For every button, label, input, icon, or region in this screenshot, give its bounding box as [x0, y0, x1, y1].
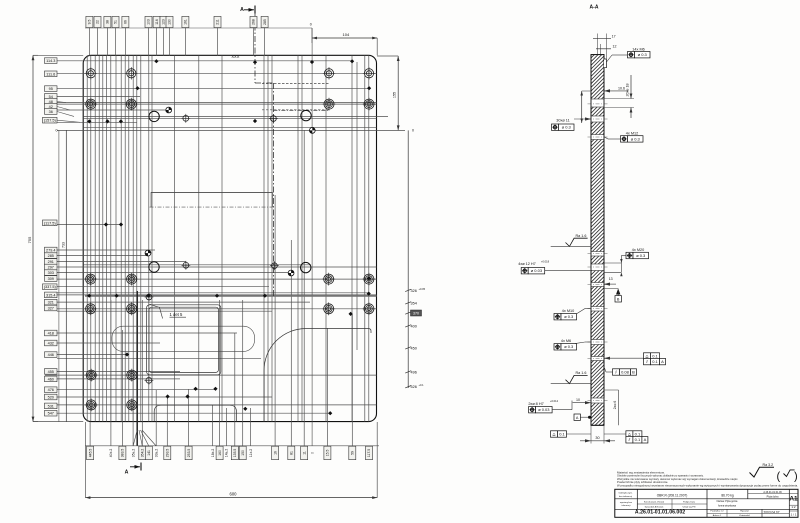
svg-text:Arkusz 1: Arkusz 1 [713, 514, 722, 517]
svg-text:285: 285 [48, 254, 54, 258]
wire: column x=298.0 [297, 55, 299, 421]
wire: dim row y=192.4 [151, 191, 273, 193]
svg-text:327: 327 [48, 307, 54, 311]
wire: bottom fan leaders [133, 430, 137, 446]
svg-text:354: 354 [411, 301, 417, 305]
svg-text:11: 11 [302, 451, 306, 455]
hole: threaded 2 [125, 98, 138, 111]
wire: column x=198.8 [198, 55, 200, 421]
svg-text:forma wtryskowa: forma wtryskowa [718, 505, 737, 508]
hole: threaded 4 [363, 98, 376, 111]
wire: column x=152.0 [151, 55, 153, 421]
svg-text:4x⌀ 12 H7: 4x⌀ 12 H7 [518, 262, 535, 266]
wire: hidden line [262, 83, 330, 85]
node marker at 330.2,413.2 [328, 411, 332, 415]
svg-text:0.08: 0.08 [621, 369, 630, 374]
label: left dim 285 [45, 253, 58, 259]
svg-text:0: 0 [412, 129, 414, 133]
svg-text:15.5: 15.5 [326, 450, 330, 457]
svg-text:520: 520 [48, 396, 54, 400]
label: left dim 432 [45, 340, 58, 346]
wire: column x=133.2 [132, 55, 134, 421]
hole: dowel 4 [301, 262, 311, 272]
svg-text:Plyta dolna: Plyta dolna [767, 495, 779, 498]
wire: top stem x=264.6 [264, 27, 266, 56]
callout: right bottom stack [626, 431, 642, 437]
node marker at 187.5,396.5 [185, 394, 189, 398]
label: left dim 531 [45, 403, 58, 409]
wire: dim row y=267.0 [57, 266, 377, 268]
svg-text:160: 160 [218, 450, 222, 456]
wire: column x=95.2 [94, 55, 96, 421]
svg-text:Ra 1.6: Ra 1.6 [576, 371, 587, 375]
svg-text:⫽: ⫽ [628, 437, 631, 442]
label: bottom dim 81 [288, 446, 295, 460]
svg-text:17: 17 [612, 34, 616, 38]
svg-text:A-A: A-A [590, 5, 599, 11]
dimension: 600 overall bottom [84, 422, 86, 498]
svg-text:117.5: 117.5 [367, 449, 371, 457]
svg-text:Uklad wg PN: Uklad wg PN [683, 507, 696, 509]
hole: dowel 2 [301, 110, 311, 120]
wire: bottom stems [89, 422, 91, 446]
node marker at 156.4,61.2 [154, 59, 158, 63]
svg-text:95: 95 [49, 87, 53, 91]
svg-text:547: 547 [48, 412, 54, 416]
svg-text:2003.04.07: 2003.04.07 [764, 510, 780, 514]
svg-text:141: 141 [147, 450, 151, 456]
wire: dim row y=104.1 [52, 103, 377, 105]
svg-text:35±.2: 35±.2 [131, 449, 135, 458]
label: left dim 327 [45, 305, 58, 311]
wire: dim row y=279.1 [45, 278, 377, 280]
hole: dowel 1 [149, 111, 159, 121]
svg-text:W przypadku niezgodnosci wymia: W przypadku niezgodnosci wymiarow nieozn… [617, 484, 798, 488]
label: top dim 285 [261, 16, 268, 27]
wire: hidden line [262, 109, 330, 111]
hole gap in section at y=103.9 [591, 99, 605, 107]
node marker at 106.0,224.5 [104, 222, 108, 226]
svg-text:Ra 3.2: Ra 3.2 [763, 463, 774, 467]
svg-text:22: 22 [96, 20, 100, 24]
svg-text:1 / 1: 1 / 1 [791, 513, 797, 517]
svg-text:30: 30 [595, 436, 599, 440]
wire: dim row y=397.0 [57, 396, 272, 398]
label: left dim (157.5) [43, 117, 58, 123]
label: left dim 111.6 [45, 71, 58, 77]
svg-text:(157.5): (157.5) [44, 119, 57, 123]
svg-text:2x⌀ 6: 2x⌀ 6 [613, 401, 617, 410]
svg-text:33±.2: 33±.2 [154, 449, 158, 458]
label: bottom dim 15.5 [324, 446, 331, 460]
svg-text:20x⌀ 18: 20x⌀ 18 [626, 84, 630, 97]
label: left dim 42 [45, 104, 58, 110]
wire: dim row y=250.0 [57, 249, 155, 251]
wire: dim row y=413.2 [57, 412, 330, 414]
hole: threaded 1 [84, 98, 97, 111]
svg-text:446: 446 [48, 353, 54, 357]
wire: top stem x=156.6 [156, 27, 158, 56]
pocket: det 5 rectangle (double wall) [147, 305, 221, 375]
svg-text:A: A [240, 7, 244, 13]
svg-text:Nazwa: Plyta gorna: Nazwa: Plyta gorna [717, 500, 738, 503]
wire: column x=99.2 [98, 55, 100, 421]
label: left dim 520 [45, 394, 58, 400]
wire: dim row y=375.1 [45, 374, 377, 376]
svg-text:86.70 kg: 86.70 kg [721, 494, 733, 498]
wire: column x=87.2 [86, 55, 88, 421]
svg-text:116: 116 [155, 19, 159, 25]
label: bottom dim 135.5 [231, 446, 238, 460]
svg-text:Rysowal: Rysowal [740, 511, 749, 513]
svg-text:10: 10 [576, 398, 580, 402]
node marker at 215.5,388.8 [213, 387, 217, 391]
node marker at 264.9,295.7 [263, 294, 267, 298]
wire: column x=106.4 [105, 55, 107, 421]
node marker at 350.6,313.9 [349, 312, 353, 316]
label: left dim 547 [45, 410, 58, 416]
hole: threaded 11 [322, 302, 335, 315]
svg-text:150: 150 [241, 450, 245, 456]
hole: counterbore top row 4 [363, 67, 375, 79]
wire: top stem x=217.5 [217, 27, 219, 56]
dimension: 155 top right vertical [397, 56, 399, 130]
svg-text:⌀ 0.3: ⌀ 0.3 [564, 344, 574, 349]
wire: dim row y=292.8 [57, 292, 370, 294]
svg-text:309: 309 [48, 277, 54, 281]
hole: counterbore top row 1 [85, 67, 97, 79]
hole: threaded 5 [84, 273, 97, 286]
dimension: 733 secondary left [65, 130, 67, 421]
label: top dim 66 [122, 16, 129, 27]
wire: column x=90.8 [90, 55, 92, 421]
svg-text:450: 450 [411, 346, 417, 350]
node marker at 89.2,295.7 [87, 294, 91, 298]
svg-text:12: 12 [613, 44, 617, 48]
hole gap in section at y=308.5 [591, 307, 605, 312]
svg-text:A: A [125, 470, 129, 476]
section plane A-A vertical leg [136, 291, 138, 446]
label: left dim 48 [45, 99, 58, 105]
label: bottom dim 35±.2 [131, 449, 135, 458]
callout: flatness/parallel right [644, 353, 660, 359]
svg-text:14±.2: 14±.2 [225, 449, 229, 458]
hole: small 3 [182, 261, 191, 270]
node marker at 255.0,62.2 [253, 60, 257, 64]
svg-text:155: 155 [393, 92, 397, 98]
svg-text:⌀ 0.03: ⌀ 0.03 [538, 407, 550, 412]
wire: column x=174.4 [173, 55, 175, 421]
wire: top stem x=253.5 [253, 27, 255, 56]
hole: lower threaded 4 [125, 399, 138, 412]
svg-text:293.5: 293.5 [166, 449, 170, 458]
right dimension column [407, 130, 409, 388]
hole: lower threaded 3 [85, 399, 98, 412]
svg-text:⌀ 0.3: ⌀ 0.3 [631, 136, 641, 141]
svg-text:11±.2: 11±.2 [249, 449, 253, 457]
wire: column x=326.0 [325, 55, 327, 421]
svg-text:XXX: XXX [231, 54, 239, 59]
svg-text:13: 13 [609, 277, 613, 281]
label: bottom dim 293.5 [164, 446, 171, 460]
svg-text:432: 432 [48, 342, 54, 346]
node marker at 352.1,61.3 [350, 59, 354, 63]
svg-text:268: 268 [252, 19, 256, 25]
label: left dim (337.5) [43, 284, 58, 290]
svg-text:18±.2: 18±.2 [211, 449, 215, 458]
note: 1 det 5 [150, 304, 163, 318]
wire: column x=364.8 [364, 55, 366, 421]
svg-text:0.1: 0.1 [635, 437, 641, 442]
svg-text:⫽: ⫽ [614, 369, 617, 374]
pocket: large fillet arc bottom-right [264, 329, 371, 422]
callout: parallel 0.08 B [613, 369, 637, 375]
svg-text:Zatwierdzil: Zatwierdzil [739, 514, 750, 517]
hole: threaded 8 [363, 273, 376, 286]
svg-text:36: 36 [49, 110, 53, 114]
label: bottom dim 33±.2 [154, 449, 158, 458]
svg-text:0.1: 0.1 [559, 431, 565, 436]
step notch top right [604, 59, 606, 68]
hole gap in section at y=358.5 [591, 357, 605, 361]
wire: column x=110.8 [110, 55, 112, 421]
hole gap in section at y=400.5 [591, 398, 605, 403]
wire: column x=140.8 [140, 55, 142, 421]
svg-text:104: 104 [343, 32, 350, 37]
label: top dim 22 [94, 16, 101, 27]
svg-text:wymiary bez: wymiary bez [620, 501, 632, 504]
wire: column x=116.0 [115, 55, 117, 421]
wire: dim row y=127.3 [83, 126, 376, 128]
label: top dim 123 [160, 16, 167, 27]
svg-text:B: B [617, 297, 620, 301]
svg-text:A.26.01-01.01.06: A.26.01-01.01.06 [763, 491, 782, 494]
label: left dim 476 [45, 387, 58, 393]
section plane A-A upper leg [254, 13, 256, 83]
section plane A-A horizontal jog [85, 295, 377, 297]
hole: threaded 3 [323, 98, 336, 111]
hole: counterbore top row 2 [125, 67, 137, 79]
svg-text:0.1: 0.1 [652, 359, 658, 364]
svg-text:66: 66 [124, 20, 128, 24]
label: bottom dim 59 [349, 446, 356, 460]
label: bottom dim 445.5 [87, 446, 94, 460]
svg-text:⌀ 0.3: ⌀ 0.3 [638, 52, 648, 57]
svg-text:460: 460 [48, 377, 54, 381]
node marker at 116.6,295.7 [115, 294, 119, 298]
node marker at 368.7,293.6 [367, 292, 371, 296]
label: top dim 103 [145, 16, 152, 27]
wire: column x=121.2 [120, 55, 122, 421]
svg-text:103: 103 [147, 19, 151, 25]
svg-text:0.1: 0.1 [652, 353, 658, 358]
svg-text:4x M6: 4x M6 [561, 339, 571, 343]
svg-text:1:2: 1:2 [791, 505, 796, 509]
wire: dim row y=294.9 [57, 294, 377, 296]
datum target at 291.1,273.0 [288, 270, 294, 276]
wire: top stem x=125.4 [124, 27, 126, 56]
hole: small 1 [181, 114, 190, 123]
svg-text:400: 400 [411, 324, 417, 328]
svg-text:+0.05: +0.05 [419, 287, 426, 291]
svg-text:(: ( [777, 471, 781, 483]
svg-text:A1: A1 [789, 496, 798, 503]
node marker at 121.0,224.5 [119, 222, 123, 226]
label: bottom dim 354.2 [139, 446, 146, 460]
svg-text:Ra 1.6: Ra 1.6 [576, 234, 587, 238]
wire: column x=368.8 [368, 55, 370, 421]
roughness Ra 1.6 lower [566, 375, 588, 383]
node marker at 148.5,295.7 [146, 294, 150, 298]
hole gap in section at y=342.0 [591, 340, 605, 345]
wire: dim row y=261.5 [57, 261, 186, 263]
hole gap in section at y=137.0 [591, 135, 605, 140]
svg-text:+0.012: +0.012 [550, 399, 559, 403]
svg-text:279.4: 279.4 [46, 249, 56, 253]
wire: top stem x=169.5 [169, 27, 171, 56]
wire [356, 62, 358, 350]
svg-text:211: 211 [216, 19, 220, 25]
wire: dim row y=354.6 [57, 354, 127, 356]
label: top dim 116 [153, 16, 160, 27]
svg-text:161: 161 [184, 19, 188, 25]
wire: column x=136.8 [136, 55, 138, 421]
svg-text:326: 326 [411, 289, 417, 293]
section plane A-A jog right [255, 82, 273, 84]
wire: left extension column [58, 130, 60, 421]
svg-text:OBR.R (208.11.2007): OBR.R (208.11.2007) [657, 494, 688, 498]
label: left dim (117.5) [43, 220, 58, 226]
wire: top stem x=97.5 [97, 27, 99, 56]
hole: small 5 [145, 376, 154, 385]
node marker at 255.0,121.0 [253, 119, 257, 123]
svg-text:B: B [632, 369, 635, 374]
datum target at 168.7,110.0 [166, 107, 172, 113]
label: left dim 460 [45, 376, 58, 382]
label: left dim 36 [45, 109, 58, 115]
svg-text:531: 531 [48, 404, 54, 408]
label: left dim 321 [45, 299, 58, 305]
svg-text:111.6: 111.6 [46, 72, 55, 76]
pocket: central rectangle [151, 192, 273, 207]
label: left dim 418 [45, 330, 58, 336]
wire: dim row y=404.9 [45, 404, 377, 406]
label: bottom dim 160 [216, 446, 223, 460]
datum A [574, 414, 580, 420]
svg-text:Sprawdzil A.Nowak: Sprawdzil A.Nowak [645, 506, 665, 509]
callout: circularity left bottom [551, 431, 567, 437]
label: left dim 309 [45, 276, 58, 282]
svg-text:Podpis Data: Podpis Data [683, 501, 696, 504]
dimension: 755 overall left [32, 55, 34, 421]
svg-text:4x M12: 4x M12 [626, 132, 638, 136]
svg-text:1 det 5: 1 det 5 [170, 312, 183, 317]
label: bottom dim 14±.2 [225, 449, 229, 458]
datum target at 148.0,253.1 [145, 250, 151, 256]
plate outline (front view) [83, 55, 376, 421]
wire: dim row y=311.2 [57, 310, 272, 312]
svg-text:⌀ 0.3: ⌀ 0.3 [564, 314, 574, 319]
node marker at 217.0,295.7 [215, 294, 219, 298]
wire: dim row y=255.6 [57, 255, 148, 257]
svg-text:0: 0 [310, 23, 312, 27]
label: bottom dim 11±.2 [249, 449, 253, 457]
wire: column x=268.0 [267, 55, 269, 421]
svg-text:135.5: 135.5 [233, 449, 237, 458]
node marker at 245.3,408.8 [243, 407, 247, 411]
svg-text:315.4: 315.4 [46, 293, 56, 297]
svg-text:291: 291 [48, 260, 54, 264]
label: bottom dim 11 [301, 446, 308, 460]
svg-text:bez tolerancji: bez tolerancji [619, 495, 632, 498]
svg-text:0.1: 0.1 [635, 431, 641, 436]
hole: small 2 [269, 114, 278, 123]
datum target at 312.3,130.4 [309, 127, 315, 133]
wire: dim row y=286.7 [57, 286, 269, 288]
pocket: horizontal slot rounded rect [112, 326, 255, 351]
label: left dim 446 [45, 352, 58, 358]
dimension: 20x dia 18 vertical [604, 98, 634, 100]
svg-text:Podzialka 1:2: Podzialka 1:2 [710, 511, 724, 513]
section plane A-A mid leg [272, 83, 274, 296]
hole: lower threaded 2 [125, 369, 138, 382]
svg-text:321: 321 [48, 301, 54, 305]
wire: top baseline to datum 0 [85, 27, 312, 29]
wire: top stem x=107.4 [106, 27, 108, 56]
svg-text:285: 285 [263, 19, 267, 25]
wire: column x=148.8 [148, 55, 150, 421]
svg-text:54: 54 [49, 95, 53, 99]
wire: dim row y=343.0 [57, 342, 160, 344]
svg-text:A: A [644, 437, 647, 442]
label: left dim 455 [45, 369, 58, 375]
wire: dim row y=371.4 [57, 370, 180, 372]
svg-text:A.26.01-01.01.06.002: A.26.01-01.01.06.002 [635, 510, 685, 516]
wire: bottom label baseline [85, 445, 379, 447]
svg-text:Odchylki wym.: Odchylki wym. [618, 493, 632, 495]
wire: dim row y=60.8 [57, 60, 353, 62]
label: left dim 54 [45, 94, 58, 100]
wire: column x=128.8 [128, 55, 130, 421]
hole: lower threaded 1 [85, 369, 98, 382]
svg-text:9.5: 9.5 [88, 20, 92, 25]
hole gap in section at y=267.0 [591, 264, 605, 271]
hole: threaded 6 [125, 273, 138, 286]
surface finish symbol Ra 3.2 [750, 467, 775, 477]
label: bottom dim 150 [239, 446, 246, 460]
wire: dim row y=116.4 [83, 115, 388, 117]
wire: top stem x=115.5 [115, 27, 117, 56]
node marker at 120.9,121.4 [119, 119, 123, 123]
svg-text:+0.1: +0.1 [419, 383, 425, 387]
svg-text:(337.5): (337.5) [44, 285, 57, 289]
svg-text:A: A [576, 416, 579, 420]
svg-text:755: 755 [27, 236, 32, 243]
wire: dim row y=272.6 [57, 272, 291, 274]
hole: dowel 3 [149, 262, 159, 272]
label: bottom dim 18±.2 [211, 449, 215, 458]
label: bottom dim 117.5 [366, 446, 373, 460]
roughness Ra 1.6 upper [566, 238, 588, 246]
node marker at 195.6,388.8 [194, 387, 198, 391]
node marker at 137.5,88.2 [135, 86, 139, 90]
label: top dim 130 [166, 16, 173, 27]
svg-text:383.5: 383.5 [121, 449, 125, 458]
label: top dim 38 [104, 16, 111, 27]
svg-text:526: 526 [411, 385, 417, 389]
wire: top stem x=163.5 [163, 27, 165, 56]
svg-text:476: 476 [48, 388, 54, 392]
